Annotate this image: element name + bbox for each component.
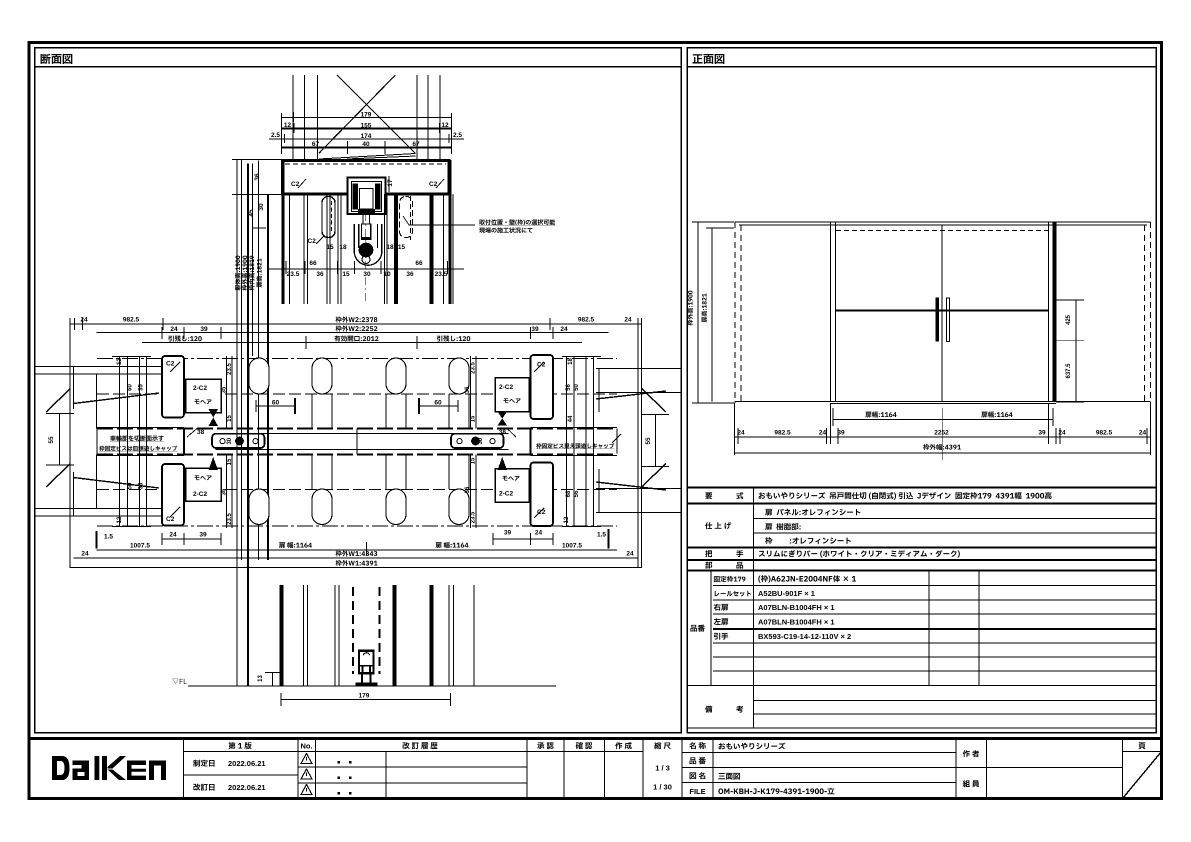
door panel tube (right, optional position dashed) [400,197,413,238]
svg-text:12: 12 [284,122,292,129]
svg-text:55: 55 [48,436,55,444]
svg-text:24: 24 [624,317,632,324]
svg-text:15: 15 [227,458,233,465]
title block texts [228,742,251,749]
179 dim at bottom [281,699,451,701]
svg-text:39: 39 [200,326,208,333]
handle left (dark) [936,298,939,342]
wall top double line [734,221,1150,223]
svg-text:24: 24 [737,430,745,437]
note text 取付位置 [479,219,555,225]
bottom dims: door widths [833,408,1053,460]
svg-text:179: 179 [359,693,370,700]
left door jamb [830,222,832,402]
left height dimension chain verticals [232,160,283,687]
svg-text:BX593-C19-14-12-110V × 2: BX593-C19-14-12-110V × 2 [758,632,851,641]
left panel frame [35,48,682,733]
svg-text:30: 30 [258,203,265,211]
floor line [188,685,556,687]
svg-text:2-C2: 2-C2 [499,491,513,498]
svg-text:56: 56 [566,384,572,391]
page diagonal [1123,752,1162,799]
right panel header line [687,66,1156,68]
svg-text:36: 36 [139,482,145,489]
hanging-rail bracket [348,178,386,215]
stud side lines [312,394,469,489]
stud ovals top row [249,358,469,525]
door bottom / floor [734,401,1150,403]
1.5 ticks [96,531,98,549]
svg-text:24: 24 [626,551,634,558]
svg-text:23.5: 23.5 [471,362,477,374]
leader line to note [403,216,475,225]
svg-text:15: 15 [471,415,477,422]
svg-text:1007.5: 1007.5 [562,543,582,550]
svg-text:24: 24 [170,326,178,333]
svg-text:30: 30 [363,271,371,278]
svg-text:12: 12 [117,358,123,365]
mohair mark right bottom [498,457,508,470]
note text right [536,443,614,449]
svg-text:60: 60 [128,384,134,391]
svg-text:36: 36 [406,271,414,278]
svg-text:66: 66 [309,260,317,267]
dim line 155 / 12 [282,128,452,130]
60 dim right [419,405,458,407]
stud ovals bottom row [249,489,269,525]
2-C2 box left top [186,379,222,413]
handle right [451,434,504,448]
svg-text:36: 36 [316,271,324,278]
svg-text:155: 155 [361,123,372,130]
wall stud verticals below plan [280,585,284,686]
svg-text:A52BU-901F × 1: A52BU-901F × 1 [758,589,815,598]
svg-text:39: 39 [531,326,539,333]
wall stud lines above header [292,75,294,160]
revision triangles [301,754,312,795]
svg-text:982.5: 982.5 [1096,430,1113,437]
55 dim left [46,414,74,466]
svg-text:39: 39 [199,532,207,539]
C2 jamb post right top [531,355,554,419]
left pocket frame verticals [112,356,151,527]
wall break diagonals left [46,389,71,413]
floor guide detail [356,651,378,686]
svg-text:15: 15 [398,244,406,251]
svg-text:637.5: 637.5 [1066,363,1072,379]
wall right dashed edge [1144,225,1146,403]
svg-text:13: 13 [258,675,264,682]
svg-text:2-C2: 2-C2 [499,384,513,391]
svg-text:2.5: 2.5 [271,132,280,139]
dim line 174 / 2.5 [269,138,464,140]
svg-text:10: 10 [383,271,391,278]
mid rail [836,310,1048,312]
svg-text:50: 50 [128,482,134,489]
center meeting stile [941,225,943,402]
svg-text:C2: C2 [308,238,317,245]
svg-text:24: 24 [169,532,177,539]
svg-text:67: 67 [312,141,320,148]
bottom dim subrow a: 24 39 / 39 24 [162,533,553,545]
wall horizontals right [596,368,681,370]
svg-text:1.5: 1.5 [597,532,606,539]
svg-text:23.5: 23.5 [227,363,233,375]
bottom dim row 2 [734,403,1150,455]
svg-text:425: 425 [1066,314,1072,325]
vertical separators [753,488,755,729]
svg-text:No.: No. [300,742,312,751]
svg-text:12: 12 [117,516,123,523]
dim row 4343 [74,557,639,559]
svg-text:A07BLN-B1004FH × 1: A07BLN-B1004FH × 1 [758,618,835,627]
dim line 179 [282,117,452,119]
svg-text:982.5: 982.5 [123,317,140,324]
head rail hidden line [836,230,1048,232]
svg-text:1007.5: 1007.5 [130,543,150,550]
60 dim left [256,405,295,407]
bottom dim subrow b: 1007.5 / door widths 1164 [97,549,618,551]
svg-text:30: 30 [227,437,233,444]
svg-text:2022.06.21: 2022.06.21 [228,783,266,792]
svg-text:36: 36 [465,486,471,493]
2-C2 box left bottom [186,468,222,501]
svg-text:39: 39 [1038,430,1046,437]
bottom dim line of top assembly [269,268,464,270]
svg-text:68: 68 [566,490,572,497]
mohair mark right top [498,412,508,426]
right pocket frame verticals [562,356,601,527]
svg-text:1 / 30: 1 / 30 [653,783,672,792]
door band inner lines [216,433,509,435]
handle right (open) [946,298,949,342]
svg-text:12: 12 [441,122,449,129]
shallow diagonals into header [319,154,416,160]
svg-text:18: 18 [568,358,574,365]
bottom dim row 3: 4391 [734,452,1150,454]
top dim row A: 24 / 982.5 / 2378 [70,318,642,568]
svg-text:56: 56 [574,490,580,497]
svg-text:55: 55 [645,437,652,445]
svg-text:1 / 3: 1 / 3 [655,764,670,773]
rotated height labels [235,256,241,291]
svg-text:23.5: 23.5 [435,271,448,278]
svg-text:15: 15 [326,244,334,251]
svg-text:174: 174 [361,133,372,140]
55 dim right [641,415,669,467]
svg-text:38: 38 [197,429,205,436]
svg-text:60: 60 [272,400,280,407]
svg-text:44: 44 [568,415,574,422]
table labels [705,492,712,499]
svg-text:2252: 2252 [934,430,949,437]
right panel title 正面図 [692,54,724,64]
svg-text:50: 50 [574,384,580,391]
svg-text:40: 40 [362,141,370,148]
handle left [212,434,265,448]
C2 jamb post right bottom [531,463,554,527]
svg-text:35: 35 [139,384,145,391]
left height dims [692,222,734,403]
svg-text:36: 36 [465,386,471,393]
hanger stem and roller housing [354,214,382,266]
svg-text:15: 15 [342,271,350,278]
svg-text:39: 39 [504,530,512,537]
svg-text:24: 24 [560,326,568,333]
top dim row B: 24 39 2252 [97,332,609,334]
svg-text:18: 18 [339,244,347,251]
lintel header box [283,161,450,195]
svg-text:23.5: 23.5 [227,513,233,525]
svg-text:23.5: 23.5 [287,271,300,278]
svg-text:67: 67 [412,141,420,148]
svg-text:35: 35 [222,386,228,393]
svg-text:45: 45 [248,209,255,217]
svg-text:2.5: 2.5 [453,132,462,139]
left panel title 断面図 [41,54,73,64]
svg-text:15: 15 [227,415,233,422]
column lines [183,739,185,799]
svg-text:24: 24 [819,430,827,437]
X cross brace [337,75,415,153]
door panel tube (left) [322,197,335,238]
wall left dashed edge [734,222,736,403]
svg-text:17: 17 [387,179,394,187]
top dim row C: 引残し120 / 有効開口2012 [142,342,582,344]
svg-text:39: 39 [837,430,845,437]
svg-text:36: 36 [254,173,261,181]
svg-text:24: 24 [1139,430,1147,437]
left small dim chain [227,356,233,528]
table values [759,492,1052,500]
svg-text:38: 38 [499,429,507,436]
svg-text:FILE: FILE [689,787,705,796]
2-C2 box right bottom [495,469,529,503]
svg-text:23.5: 23.5 [471,511,477,523]
pocket band solid segments [97,428,617,456]
right panel frame [687,48,1156,733]
DAIKEN logo [52,756,166,780]
right door jamb thick [1048,222,1050,402]
svg-text:30: 30 [478,437,484,444]
svg-text:24: 24 [80,317,88,324]
svg-text:18: 18 [386,244,394,251]
left panel header line [35,66,682,68]
svg-text:982.5: 982.5 [578,317,595,324]
dim line 40 / 67 [282,147,452,149]
svg-text:179: 179 [361,112,372,119]
FL marker [172,679,186,684]
right side dims 425 / 637.5 [1056,300,1084,402]
plan horizontal datum lines [97,359,617,527]
C2 jamb post left top [162,356,184,418]
dim row 4391 [70,567,642,569]
wall horizontals left [35,367,681,517]
mohair mark left bottom [209,457,219,470]
svg-text:1.5: 1.5 [104,534,113,541]
note text left (two lines) [110,435,164,441]
door band verticals [97,429,617,455]
svg-text:36: 36 [222,488,228,495]
svg-text:C2: C2 [166,361,175,368]
svg-text:12: 12 [564,516,570,523]
svg-text:15: 15 [471,457,477,464]
svg-text:24: 24 [81,551,89,558]
2-C2 box right top [495,378,529,412]
svg-text:60: 60 [434,400,442,407]
svg-text:982.5: 982.5 [774,430,791,437]
C2 jamb post left bottom [162,464,184,526]
svg-text:2022.06.21: 2022.06.21 [228,759,266,768]
svg-text:2-C2: 2-C2 [193,385,207,392]
svg-text:66: 66 [415,260,423,267]
construction verticals crossing plan [248,164,268,687]
svg-text:24: 24 [535,530,543,537]
svg-text:24: 24 [1058,430,1066,437]
right small dim chain [471,356,477,528]
row lines [184,751,644,753]
verticals below lintel to section break [283,160,453,304]
mohair mark left top [209,409,219,426]
svg-text:A07BLN-B1004FH × 1: A07BLN-B1004FH × 1 [758,603,835,612]
svg-text:2-C2: 2-C2 [193,491,207,498]
